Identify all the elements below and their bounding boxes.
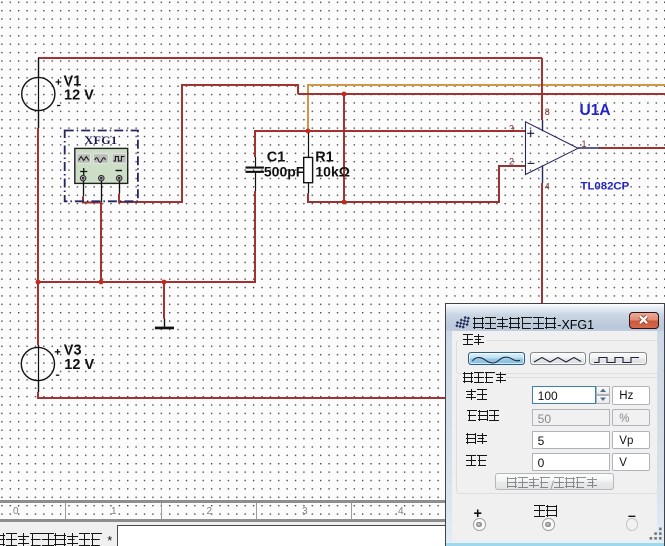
offset field: [532, 453, 610, 471]
wire op-amp pin 4 down: [541, 183, 543, 306]
svg-text:3: 3: [509, 124, 514, 134]
ruler bar bottom: [0, 519, 665, 522]
terminal minus label: [628, 507, 636, 523]
source V1 polarity: [56, 79, 62, 105]
freq unit: [612, 386, 650, 405]
wire orange net: [307, 85, 665, 131]
wire C1 bottom to rail: [254, 191, 256, 283]
wire V3 bottom to dialog: [38, 392, 450, 398]
capacitor C1: [246, 167, 264, 173]
R1 leads: [308, 133, 310, 193]
wire ground stub: [163, 283, 165, 319]
svg-text:12 V: 12 V: [64, 357, 94, 373]
source V1: [22, 58, 55, 128]
rise/fall button: [495, 473, 614, 490]
signal options label: [463, 372, 507, 390]
source V3 polarity: [55, 349, 61, 375]
wave button square: [589, 352, 647, 366]
wire XFG plus terminal: [82, 196, 101, 202]
junction node plus-input: [306, 129, 311, 134]
svg-text:XFG1: XFG1: [85, 133, 118, 147]
XFG1 wave button 2: [94, 154, 109, 163]
group signal options: [456, 377, 658, 494]
ampl field: [532, 431, 610, 449]
terminal common label: [534, 505, 558, 523]
op-amp U1A triangle: [526, 122, 579, 175]
ruler ticks: [65, 503, 66, 520]
svg-text:2: 2: [509, 157, 514, 167]
junction node rail V1: [36, 280, 41, 285]
svg-text:10kΩ: 10kΩ: [315, 164, 350, 180]
wave button triangle: [530, 352, 586, 366]
svg-text:8: 8: [545, 107, 550, 117]
op-amp pin8 lead: [542, 120, 544, 131]
XFG1 wave button 3: [112, 154, 126, 163]
svg-text:1: 1: [582, 139, 587, 149]
XFG1 plus mark: [80, 168, 87, 175]
XFG1 green panel: [75, 148, 128, 183]
svg-text:4: 4: [545, 182, 550, 192]
op-amp pin4 lead: [542, 165, 544, 183]
ground symbol: [164, 319, 166, 327]
junction node rail com: [99, 280, 104, 285]
svg-text:12 V: 12 V: [64, 88, 94, 104]
ampl unit: [612, 431, 650, 449]
XFG1 terminal leads: [84, 181, 120, 202]
op-amp plus mark: [527, 130, 534, 137]
source V3: [21, 345, 54, 392]
V1 symbol center line: [38, 77, 40, 110]
dialog icon: [455, 315, 471, 330]
terminal common: [542, 518, 555, 531]
dialog bottom blue strip: [446, 542, 664, 546]
wire plus input horizontal: [254, 131, 525, 157]
wire top +12V rail: [38, 57, 542, 59]
wire +12V rail drop to pin 8: [541, 58, 543, 120]
ruler bar top: [0, 500, 665, 503]
wire V1 to V3 left rail: [37, 128, 39, 345]
dialog close button: [629, 312, 660, 329]
C1 leads: [255, 157, 257, 191]
XFG1 minus mark: [116, 170, 123, 172]
waveform group label: [463, 334, 485, 352]
dialog window: [445, 303, 665, 546]
dialog title: [473, 317, 594, 335]
offset unit: [612, 453, 650, 471]
svg-text:500pF: 500pF: [264, 164, 305, 180]
resize grip: [649, 527, 663, 541]
wire R1 bottom to op-amp pin 2: [307, 166, 525, 203]
op-amp pin1 lead: [578, 147, 600, 149]
ampl label: [466, 433, 488, 451]
junction node rail ground: [162, 280, 167, 285]
junction node minus net top: [342, 92, 347, 97]
svg-text:TL082CP: TL082CP: [581, 181, 630, 193]
group waveform: [456, 340, 658, 374]
dialog body: [452, 331, 657, 541]
wave button sine (selected): [468, 352, 525, 366]
duty unit: [612, 409, 650, 427]
XFG1 terminals: [80, 176, 122, 181]
terminal minus: [626, 518, 639, 531]
wire XFG com terminal to rail: [100, 202, 102, 283]
freq spinner: [595, 385, 597, 387]
resistor R1: [304, 157, 313, 182]
junction node minus net bottom: [342, 200, 347, 205]
wire bottom ground rail: [37, 281, 255, 283]
freq row label: [466, 389, 488, 407]
ruler numbers: [13, 506, 19, 517]
freq field: [532, 386, 596, 404]
offset label: [466, 455, 488, 473]
XFG1 wave button 1: [77, 154, 90, 163]
wire XFG minus terminal loop: [118, 85, 665, 203]
wire minus input branch x=344: [343, 94, 345, 202]
instrument XFG1 dashed border: [65, 131, 138, 202]
svg-text:V3: V3: [64, 342, 82, 358]
duty label: [467, 410, 500, 428]
wire op-amp output: [599, 147, 665, 149]
op-amp minus mark: [528, 162, 535, 164]
terminal plus: [473, 518, 486, 531]
svg-text:U1A: U1A: [580, 102, 611, 119]
sheet tab bar: [0, 522, 665, 546]
duty field: [532, 409, 610, 427]
terminal plus label: [473, 506, 481, 522]
